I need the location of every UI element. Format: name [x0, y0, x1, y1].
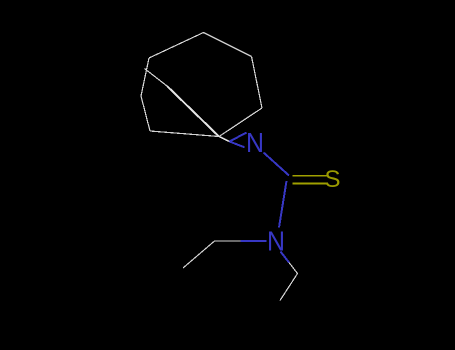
ring edge C-D left lower — [141, 96, 150, 131]
ring edge A-G2 top-right — [204, 33, 252, 57]
double bond C2=S lower line — [293, 183, 328, 185]
ring bridge bond G-W upper — [145, 69, 168, 87]
bond N1-CH2b white half — [289, 263, 298, 274]
bond N4-C2 — [264, 153, 290, 176]
ring edge B-C left upper — [141, 58, 149, 96]
double bond C5=N4 lower line — [230, 142, 245, 148]
double bond C2=S upper line — [293, 175, 328, 177]
ring edge F-E right lower — [219, 108, 262, 137]
svg-text:S: S — [324, 166, 340, 193]
ring bridge bond G-E diagonal — [167, 86, 219, 137]
bond stub E to wedge apex — [219, 137, 230, 142]
bond CH2a-CH3a — [183, 241, 215, 268]
svg-text:N: N — [267, 226, 285, 257]
bond N1-CH2a blue half — [241, 240, 267, 242]
ring edge G2-F right — [252, 57, 263, 109]
double bond C5=N4 upper line — [230, 133, 247, 142]
ring edge A-B top-left — [149, 33, 204, 59]
bond C2-N1 — [279, 181, 287, 228]
ring edge D-E bottom — [150, 131, 219, 137]
bond CH2b-CH3b — [280, 274, 298, 301]
svg-text:N: N — [246, 127, 264, 158]
bond N1-CH2a white half — [215, 240, 241, 242]
bond N1-CH2b blue half — [281, 252, 290, 263]
